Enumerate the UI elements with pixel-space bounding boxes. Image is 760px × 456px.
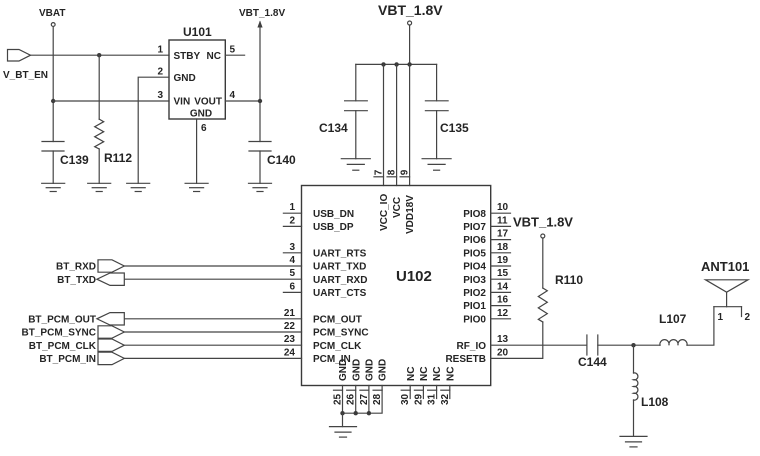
ground C135 bbox=[422, 159, 451, 171]
wire C135 bottom lead bbox=[436, 111, 438, 159]
pin 26 GND bbox=[346, 359, 363, 405]
wire GND bus to ground bbox=[342, 413, 344, 426]
svg-text:22: 22 bbox=[284, 321, 296, 332]
svg-text:21: 21 bbox=[284, 308, 296, 319]
node BT_PCM_IN bbox=[39, 354, 96, 365]
svg-text:PIO2: PIO2 bbox=[463, 288, 486, 299]
connector BT_PCM_SYNC bbox=[98, 326, 124, 338]
node VBT_1.8V (left) bbox=[239, 8, 285, 19]
svg-text:6: 6 bbox=[289, 281, 295, 292]
pin 23 PCM_CLK wire from BT_PCM_CLK bbox=[284, 334, 362, 352]
pin 3 VIN bbox=[157, 90, 190, 108]
svg-text:3: 3 bbox=[157, 90, 163, 101]
pin 5 NC bbox=[207, 45, 236, 62]
pin number 1 ANT101 bbox=[718, 312, 724, 323]
svg-text:GND: GND bbox=[190, 109, 212, 120]
wire pin7 VCC_IO bbox=[383, 64, 385, 185]
IC U102 box bbox=[302, 186, 491, 386]
pin 10 PIO8 bbox=[463, 202, 508, 220]
svg-text:PIO1: PIO1 bbox=[463, 301, 486, 312]
ground C134 bbox=[341, 159, 370, 171]
node BT_PCM_SYNC bbox=[22, 328, 96, 339]
svg-text:RF_IO: RF_IO bbox=[457, 341, 487, 352]
wire R112 bottom lead bbox=[98, 149, 100, 183]
svg-text:BT_RXD: BT_RXD bbox=[56, 262, 96, 273]
node V_BT_EN bbox=[3, 70, 48, 81]
svg-text:NC: NC bbox=[432, 367, 443, 381]
pin 30 NC bbox=[400, 367, 417, 405]
node BT_TXD bbox=[57, 275, 96, 286]
svg-text:10: 10 bbox=[497, 202, 509, 213]
pin number 7 bbox=[374, 169, 385, 175]
svg-text:27: 27 bbox=[359, 393, 370, 405]
junction VOUT/C140 bbox=[258, 99, 262, 103]
svg-text:4: 4 bbox=[289, 255, 295, 266]
svg-text:RESETB: RESETB bbox=[445, 354, 486, 365]
svg-text:13: 13 bbox=[497, 334, 509, 345]
svg-text:BT_PCM_SYNC: BT_PCM_SYNC bbox=[22, 328, 96, 339]
wire L108 top lead bbox=[633, 345, 635, 373]
wire C139 bottom lead bbox=[52, 151, 54, 183]
VBT_1.8V terminal circle bbox=[541, 234, 545, 238]
pin 22 PCM_SYNC wire from BT_PCM_SYNC bbox=[284, 321, 369, 339]
svg-text:VBAT: VBAT bbox=[39, 8, 65, 19]
pin 32 NC bbox=[440, 367, 457, 405]
op-amp U101 box bbox=[169, 40, 225, 119]
pin 29 NC bbox=[413, 367, 430, 405]
svg-text:STBY: STBY bbox=[174, 51, 201, 62]
pin 14 PIO2 bbox=[463, 281, 508, 299]
svg-text:C144: C144 bbox=[578, 355, 607, 369]
wire VIN pin3 bbox=[53, 100, 169, 102]
junction pin7 bbox=[381, 62, 385, 66]
wire V_BT_EN to STBY pin1 bbox=[31, 54, 170, 56]
junction GND bus 26 bbox=[354, 411, 358, 415]
svg-text:5: 5 bbox=[289, 268, 295, 279]
svg-text:R112: R112 bbox=[104, 151, 132, 165]
svg-text:C140: C140 bbox=[267, 153, 296, 167]
pin 1 STBY label bbox=[157, 45, 200, 62]
svg-text:16: 16 bbox=[497, 295, 509, 306]
svg-text:USB_DN: USB_DN bbox=[313, 209, 354, 220]
svg-text:VCC: VCC bbox=[392, 197, 403, 218]
pin 6 bbox=[201, 123, 207, 134]
pin number 9 bbox=[400, 169, 411, 175]
ground pin6 bbox=[185, 183, 208, 191]
connector V_BT_EN bbox=[8, 50, 31, 62]
pin 31 NC bbox=[427, 367, 444, 405]
pin 5 UART_RXD wire from BT_TXD bbox=[289, 268, 367, 286]
svg-text:17: 17 bbox=[497, 229, 509, 240]
svg-text:UART_RTS: UART_RTS bbox=[313, 248, 367, 259]
svg-text:15: 15 bbox=[497, 268, 509, 279]
wire L108 bottom lead bbox=[633, 400, 635, 436]
svg-text:R110: R110 bbox=[555, 273, 583, 287]
wire L107 to ANT101 bbox=[687, 307, 714, 346]
junction R112 top bbox=[97, 53, 101, 57]
pin 18 PIO5 bbox=[463, 242, 508, 260]
svg-text:6: 6 bbox=[201, 123, 207, 134]
svg-text:18: 18 bbox=[497, 242, 509, 253]
U102 top rotated labels VCC_IO VCC VDD18V bbox=[379, 194, 416, 234]
node VBT_1.8V (top center) bbox=[378, 2, 443, 18]
ground U102 bbox=[330, 427, 357, 438]
svg-text:12: 12 bbox=[497, 308, 509, 319]
capacitor C144 bbox=[587, 335, 598, 355]
ground C140 bbox=[249, 183, 272, 191]
svg-text:PIO3: PIO3 bbox=[463, 275, 486, 286]
junction VBAT/VIN bbox=[51, 99, 55, 103]
svg-text:VDD18V: VDD18V bbox=[405, 195, 416, 234]
wire VBAT vertical to C139/VIN bbox=[52, 27, 54, 142]
wire VBT_1.8V down to VOUT bbox=[259, 22, 261, 142]
pin 2 USB_DP bbox=[289, 215, 353, 233]
svg-text:BT_PCM_IN: BT_PCM_IN bbox=[39, 354, 96, 365]
pin 2 GND bbox=[157, 67, 195, 84]
svg-text:PCM_OUT: PCM_OUT bbox=[313, 314, 362, 325]
wire pin9 VDD18V bbox=[409, 64, 411, 185]
node VBT_1.8V (right) bbox=[513, 215, 573, 230]
svg-text:29: 29 bbox=[413, 393, 424, 405]
svg-text:GND: GND bbox=[378, 359, 389, 381]
ground pin2 bbox=[127, 183, 150, 191]
svg-text:14: 14 bbox=[497, 281, 509, 292]
svg-text:11: 11 bbox=[497, 215, 508, 226]
svg-text:31: 31 bbox=[427, 393, 438, 405]
svg-text:32: 32 bbox=[440, 393, 451, 405]
antenna ANT101 bbox=[706, 280, 749, 317]
svg-text:UART_CTS: UART_CTS bbox=[313, 288, 367, 299]
wire C135 top lead bbox=[436, 64, 438, 100]
svg-text:GND: GND bbox=[351, 359, 362, 381]
svg-text:NC: NC bbox=[445, 367, 456, 381]
svg-text:GND: GND bbox=[174, 73, 196, 84]
wire C140 bottom lead bbox=[259, 151, 261, 183]
pin 1 USB_DN bbox=[289, 202, 354, 220]
svg-text:2: 2 bbox=[289, 215, 295, 226]
svg-text:26: 26 bbox=[346, 393, 357, 405]
svg-text:PIO6: PIO6 bbox=[463, 235, 486, 246]
svg-text:30: 30 bbox=[400, 393, 411, 405]
wire C134 top lead bbox=[355, 64, 357, 100]
svg-text:PIO8: PIO8 bbox=[463, 209, 486, 220]
svg-text:V_BT_EN: V_BT_EN bbox=[3, 70, 48, 81]
pin 4 VOUT bbox=[194, 90, 235, 108]
pin number 8 bbox=[387, 169, 398, 175]
svg-text:C135: C135 bbox=[440, 121, 469, 135]
pin 24 PCM_IN wire from BT_PCM_IN bbox=[284, 347, 351, 365]
svg-text:PIO5: PIO5 bbox=[463, 248, 486, 259]
node BT_PCM_CLK bbox=[29, 341, 97, 352]
svg-text:BT_PCM_OUT: BT_PCM_OUT bbox=[28, 314, 96, 325]
svg-text:1: 1 bbox=[289, 202, 295, 213]
svg-text:8: 8 bbox=[387, 169, 398, 175]
svg-text:PCM_CLK: PCM_CLK bbox=[313, 341, 362, 352]
svg-text:L108: L108 bbox=[641, 395, 669, 409]
svg-text:19: 19 bbox=[497, 255, 509, 266]
svg-text:ANT101: ANT101 bbox=[701, 259, 749, 274]
svg-text:VOUT: VOUT bbox=[194, 97, 222, 108]
svg-text:VCC_IO: VCC_IO bbox=[379, 194, 390, 231]
junction L107/L108 bbox=[631, 343, 635, 347]
svg-text:UART_TXD: UART_TXD bbox=[313, 262, 366, 273]
svg-text:NC: NC bbox=[419, 367, 430, 381]
svg-text:VBT_1.8V: VBT_1.8V bbox=[513, 215, 573, 230]
svg-text:9: 9 bbox=[400, 169, 411, 175]
node BT_PCM_OUT bbox=[28, 314, 96, 325]
svg-text:25: 25 bbox=[333, 393, 344, 405]
svg-text:L107: L107 bbox=[659, 312, 687, 326]
wire C134 bottom lead bbox=[355, 111, 357, 159]
connector BT_PCM_CLK bbox=[98, 339, 124, 351]
pin 15 PIO3 bbox=[463, 268, 508, 286]
junction GND bus 27 bbox=[367, 411, 371, 415]
wire C144 to junction bbox=[598, 344, 660, 346]
capacitor C140 bbox=[249, 142, 271, 152]
svg-text:VBT_1.8V: VBT_1.8V bbox=[239, 8, 285, 19]
junction GND bus 25 bbox=[340, 411, 344, 415]
svg-text:GND: GND bbox=[338, 359, 349, 381]
pin 11 PIO7 bbox=[463, 215, 508, 233]
svg-text:NC: NC bbox=[207, 51, 221, 62]
ground R112 bbox=[88, 183, 111, 191]
svg-text:VIN: VIN bbox=[174, 97, 191, 108]
connector BT_TXD bbox=[97, 273, 124, 285]
svg-text:5: 5 bbox=[230, 45, 236, 56]
svg-text:1: 1 bbox=[157, 45, 163, 56]
wire pin8 VCC bbox=[396, 64, 398, 185]
wire R110 top lead bbox=[542, 239, 544, 289]
svg-text:4: 4 bbox=[230, 90, 236, 101]
svg-text:7: 7 bbox=[374, 169, 385, 175]
pin 28 GND bbox=[372, 359, 389, 405]
svg-text:BT_TXD: BT_TXD bbox=[57, 275, 96, 286]
svg-text:2: 2 bbox=[745, 312, 751, 323]
pin 21 PCM_OUT wire from BT_PCM_OUT bbox=[284, 308, 362, 326]
svg-text:C134: C134 bbox=[319, 121, 348, 135]
pin 3 UART_RTS bbox=[289, 242, 366, 260]
svg-text:PIO7: PIO7 bbox=[463, 222, 486, 233]
U101 GND bottom label bbox=[190, 109, 212, 120]
svg-text:28: 28 bbox=[372, 393, 383, 405]
svg-text:1: 1 bbox=[718, 312, 724, 323]
svg-text:24: 24 bbox=[284, 347, 296, 358]
power arrow VBT_1.8V bbox=[257, 21, 262, 28]
pin 16 PIO1 bbox=[463, 295, 508, 313]
svg-text:UART_RXD: UART_RXD bbox=[313, 275, 367, 286]
svg-text:20: 20 bbox=[497, 347, 509, 358]
wire RESETB to R110 bbox=[491, 322, 543, 358]
connector BT_RXD bbox=[98, 260, 124, 272]
svg-text:PCM_SYNC: PCM_SYNC bbox=[313, 328, 369, 339]
wire RF_IO to C144 bbox=[491, 344, 587, 346]
wire pin4 VOUT to VBT_1.8V bbox=[225, 100, 260, 102]
capacitor C134 bbox=[345, 101, 368, 111]
resistor R112 bbox=[95, 119, 104, 149]
capacitor C135 bbox=[425, 101, 448, 111]
capacitor C139 bbox=[42, 142, 64, 152]
inductor L107 bbox=[660, 340, 687, 346]
wire power bus bbox=[356, 63, 437, 65]
ground L108 bbox=[620, 436, 647, 447]
junction pin8 bbox=[394, 62, 398, 66]
svg-text:USB_DP: USB_DP bbox=[313, 222, 354, 233]
pin number 2 ANT101 bbox=[745, 312, 751, 323]
svg-text:GND: GND bbox=[365, 359, 376, 381]
VBAT terminal circle bbox=[51, 23, 55, 27]
svg-text:VBT_1.8V: VBT_1.8V bbox=[378, 2, 443, 18]
svg-text:PIO4: PIO4 bbox=[463, 262, 486, 273]
pin 17 PIO6 bbox=[463, 229, 508, 247]
pin 6 UART_CTS bbox=[289, 281, 366, 299]
junction pin9 bbox=[407, 62, 411, 66]
pin 13 RF_IO bbox=[457, 334, 509, 352]
svg-text:U102: U102 bbox=[396, 268, 432, 285]
svg-text:3: 3 bbox=[289, 242, 295, 253]
wire pin2 to ground bbox=[138, 77, 169, 183]
connector BT_PCM_IN bbox=[98, 352, 124, 364]
svg-text:NC: NC bbox=[406, 367, 417, 381]
svg-text:BT_PCM_CLK: BT_PCM_CLK bbox=[29, 341, 97, 352]
pin 20 RESETB bbox=[445, 347, 508, 365]
svg-text:PIO0: PIO0 bbox=[463, 314, 486, 325]
svg-text:2: 2 bbox=[157, 67, 163, 78]
svg-text:U101: U101 bbox=[183, 25, 212, 39]
resistor R110 bbox=[538, 288, 547, 322]
inductor L108 bbox=[634, 373, 638, 400]
wire pin5 stub bbox=[225, 54, 244, 56]
VBT_1.8V terminal circle bbox=[408, 21, 412, 25]
pin 4 UART_TXD wire from BT_RXD bbox=[289, 255, 366, 273]
node VBAT bbox=[39, 8, 65, 19]
svg-text:23: 23 bbox=[284, 334, 296, 345]
wire VBT_1.8V to bus bbox=[409, 26, 411, 65]
wire R112 top lead bbox=[98, 55, 100, 119]
node BT_RXD bbox=[56, 262, 96, 273]
pin 12 PIO0 bbox=[463, 308, 508, 326]
pin 25 GND bbox=[333, 359, 350, 405]
pin 19 PIO4 bbox=[463, 255, 508, 273]
connector BT_PCM_OUT bbox=[97, 313, 124, 325]
pin 27 GND bbox=[359, 359, 376, 405]
svg-text:C139: C139 bbox=[60, 153, 89, 167]
ground C139 bbox=[42, 183, 65, 191]
wire pin6 to ground bbox=[196, 119, 198, 183]
